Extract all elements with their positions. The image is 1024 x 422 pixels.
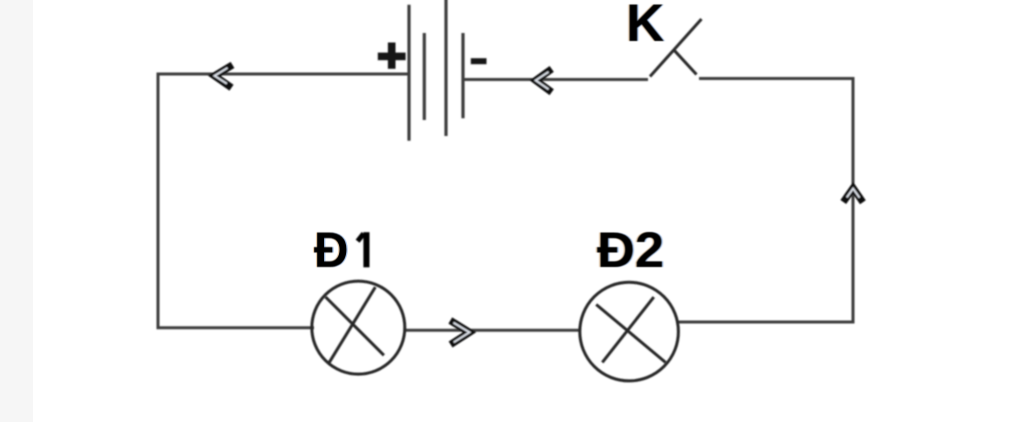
wire: top-left horizontal (battery + terminal to left corner) [158,73,408,76]
label D1 digit 1 (stem) [363,232,369,267]
wire: right vertical [852,78,855,324]
lamp D1: X stroke 2 [328,287,375,364]
switch K: right contact riser [673,49,696,74]
wire: left vertical [157,73,160,328]
wire: top-right horizontal (right corner to switch) [699,77,855,80]
battery B1: plate long (clipped at top) [444,0,447,136]
lamp D1: X stroke 1 [326,297,384,355]
battery plus sign [378,43,406,69]
label D1 digit 1 (flag) [358,234,364,242]
lamp D1: circle [312,281,405,374]
lamp D2: X stroke 2 [602,297,654,362]
wire: between lamps D1 and D2 [404,329,581,332]
switch K: blade [650,19,702,77]
label D1 (lamp 1) [314,225,348,275]
battery B1: plate long left (+) [407,5,410,141]
wire: bottom-left horizontal (to lamp D1) [157,326,315,329]
current arrow bottom (between lamps, pointing right) [450,321,469,345]
wire: lamp D2 to bottom-right corner [676,321,853,324]
label D2 (lamp 2) [597,225,664,275]
left gray margin band [0,0,33,422]
lamp D2: circle [580,282,679,381]
current arrow left (top-left wire, chevron pointing left) [215,65,233,88]
battery minus sign [471,58,487,64]
wire: switch to battery - terminal [463,78,648,81]
battery B1: plate short (-) [461,33,464,118]
current arrow mid-top (between battery and switch, pointing left) [536,69,552,92]
label K (switch) [626,0,664,50]
battery B1: plate short [423,33,426,120]
lamp D2: X stroke 1 [596,305,665,363]
current arrow right (right vertical wire, pointing up) [843,188,863,202]
